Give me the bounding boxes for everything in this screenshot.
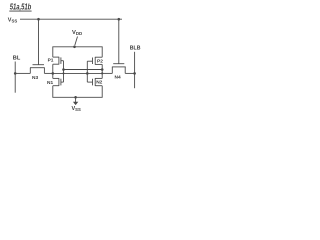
wire BL to N3 source xyxy=(15,72,30,74)
svg-text:51a,51b: 51a,51b xyxy=(10,2,32,11)
svg-text:VSS: VSS xyxy=(8,18,18,24)
node VSS tap xyxy=(74,96,77,99)
node BLB junction xyxy=(133,72,136,75)
wire N3 gate vertical xyxy=(38,19,40,64)
wire node A to right gates xyxy=(53,72,102,74)
transistor N2 xyxy=(87,78,102,86)
transistor N1 xyxy=(53,78,64,86)
svg-text:N4: N4 xyxy=(115,75,121,81)
svg-text:N3: N3 xyxy=(32,75,38,81)
wire VSS bottom rail xyxy=(53,86,102,98)
node VDD tap xyxy=(73,46,76,49)
wire VDD leader line xyxy=(75,37,78,46)
transistor N3 xyxy=(30,65,45,74)
wire N4 gate vertical xyxy=(118,19,120,64)
wire N4 drain to BLB xyxy=(125,72,134,74)
wire BLB bitline xyxy=(134,52,136,88)
wire right column node B xyxy=(101,64,103,78)
wire left column node A xyxy=(52,64,54,78)
svg-text:P2: P2 xyxy=(97,58,103,64)
node B junction on right column xyxy=(101,68,104,71)
ground VSS stub xyxy=(75,97,77,102)
svg-text:BLB: BLB xyxy=(130,45,141,51)
node A to right gate junction xyxy=(86,72,89,75)
wire node B from left gates to right column xyxy=(64,69,103,71)
node BL junction xyxy=(14,72,17,75)
wire N3 drain to node A xyxy=(44,72,52,74)
svg-text:BL: BL xyxy=(13,56,21,62)
svg-text:N2: N2 xyxy=(96,80,102,86)
ground VSS arrowhead xyxy=(73,102,78,105)
wire right column to N4 source xyxy=(102,72,112,74)
node WL junction to N4 gate xyxy=(118,18,121,21)
svg-text:VDD: VDD xyxy=(72,30,82,36)
node right column / lower wire junction blob xyxy=(101,72,103,74)
node WL junction to N3 gate xyxy=(37,18,40,21)
wire BL bitline xyxy=(14,62,16,93)
transistor P1 xyxy=(53,57,64,65)
transistor N4 xyxy=(112,64,126,74)
svg-text:N1: N1 xyxy=(47,80,53,86)
node A junction on column xyxy=(52,72,55,75)
node A / left gate line crossing blob xyxy=(62,72,64,74)
svg-text:P1: P1 xyxy=(48,58,54,64)
node left gates to node B wire xyxy=(62,68,65,71)
wire word line xyxy=(20,18,122,20)
wire VDD rail xyxy=(53,47,102,57)
svg-text:VSS: VSS xyxy=(72,106,81,112)
wire left gate vertical xyxy=(63,61,65,82)
wire right gate vertical xyxy=(86,61,88,82)
transistor P2 xyxy=(87,57,102,65)
